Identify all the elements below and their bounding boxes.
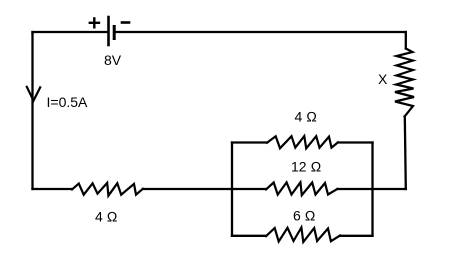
battery V1 positive plate (long): [107, 17, 110, 45]
resistor R1 4 ohm (bottom-left zigzag): [72, 183, 143, 196]
svg-text:I=0.5A: I=0.5A: [47, 94, 89, 110]
svg-text:4 Ω: 4 Ω: [295, 108, 318, 124]
wire top-right corner down to resistor X: [405, 32, 407, 49]
wire top (battery to node at top-right): [114, 31, 406, 33]
wire bottom branch right stub: [340, 235, 373, 237]
svg-text:12 Ω: 12 Ω: [291, 158, 321, 174]
wire bottom branch left stub: [232, 235, 266, 237]
wire top branch left stub: [232, 141, 267, 143]
node: parallel network right rail: [371, 143, 373, 236]
svg-text:4 Ω: 4 Ω: [95, 208, 118, 224]
resistor R4 6 ohm (bottom branch zigzag): [266, 228, 340, 243]
wire R1 to parallel box: [143, 188, 232, 190]
wire middle branch left stub: [232, 188, 266, 190]
current direction arrow (downward): [27, 87, 40, 101]
node: parallel network left rail: [231, 143, 233, 236]
wire resistor X to bottom-right corner: [405, 117, 406, 190]
battery V1 negative plate (short): [113, 27, 116, 39]
svg-text:8V: 8V: [104, 52, 122, 68]
wire bottom-left segment: [33, 188, 73, 190]
wire top branch right stub: [338, 141, 373, 143]
battery - terminal mark: [122, 21, 129, 24]
resistor R2 4 ohm (top branch zigzag): [267, 136, 338, 148]
wire left branch: [31, 32, 33, 189]
battery + terminal mark: [90, 18, 99, 27]
resistor R3 12 ohm (middle branch zigzag): [266, 182, 338, 195]
wire middle branch right stub and out to right rail: [338, 188, 406, 190]
wire top-left (battery + lead): [33, 32, 109, 34]
resistor X (vertical zigzag): [395, 49, 414, 117]
svg-text:X: X: [378, 71, 388, 87]
svg-text:6 Ω: 6 Ω: [293, 207, 316, 223]
